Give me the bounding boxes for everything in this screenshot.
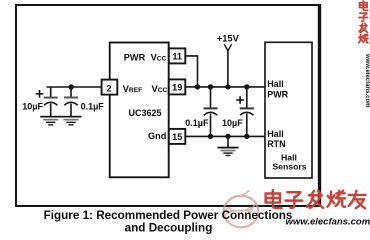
svg-text:PWR: PWR (267, 90, 288, 100)
junction C3 top to Vcc rail (208, 84, 213, 89)
svg-text:Hall: Hall (267, 79, 284, 89)
svg-text:VCC: VCC (151, 53, 167, 63)
svg-text:11: 11 (172, 51, 182, 61)
svg-text:www.elecfans.com: www.elecfans.com (364, 53, 370, 107)
svg-text:Figure 1: Recommended Power Co: Figure 1: Recommended Power Connections (44, 209, 293, 222)
wire top rail pin19 to Hall PWR (185, 86, 265, 88)
watermark text top right (vertical 电子发烧) (359, 1, 368, 43)
figure caption (44, 209, 293, 235)
svg-text:+15V: +15V (217, 34, 240, 44)
junction pin11 wire to Vcc rail (195, 84, 200, 89)
capacitor C4 10uF (center, polarized) (240, 87, 254, 136)
plus sign C1 (36, 90, 44, 98)
watermark text bottom (电子发烧友) (266, 190, 366, 208)
svg-text:0.1µF: 0.1µF (185, 118, 209, 128)
junction C4 bottom to Gnd row (244, 134, 249, 139)
svg-text:10µF: 10µF (222, 118, 243, 128)
svg-text:www.elecfans.com: www.elecfans.com (286, 217, 370, 228)
svg-text:Hall: Hall (267, 129, 284, 139)
junction ground to Gnd row (225, 134, 230, 139)
plus sign C4 (236, 96, 244, 104)
node label Hall RTN (267, 129, 286, 149)
pin label PWR Vcc (124, 53, 167, 63)
Hall Sensors block label (272, 152, 306, 171)
svg-text:Gnd: Gnd (148, 131, 166, 141)
capacitor C1 10uF (left, polarized) (44, 87, 58, 116)
junction +15V to Vcc rail (225, 84, 230, 89)
svg-text:2: 2 (106, 83, 111, 94)
svg-text:0.1µF: 0.1µF (81, 102, 105, 112)
IC U1 UC3625 body (110, 43, 169, 178)
capacitor C3 0.1uF (center) (204, 87, 218, 136)
ground (left, C1) (40, 116, 61, 126)
wire pin2 to decoupling caps (47, 86, 102, 88)
svg-text:VREF: VREF (123, 84, 143, 94)
svg-text:UC3625: UC3625 (129, 108, 162, 118)
svg-text:19: 19 (172, 82, 182, 92)
wire pin11 stub (185, 56, 197, 87)
border frame (16, 5, 320, 206)
junction C4 top to Vcc rail (244, 84, 249, 89)
Hall Sensors block (265, 42, 312, 178)
+15V supply terminal (217, 34, 240, 87)
svg-text:10µF: 10µF (22, 102, 43, 112)
junction C2 top to VREF wire (69, 84, 74, 89)
ground (center) (218, 136, 239, 156)
svg-text:PWR: PWR (124, 53, 146, 63)
capacitor C2 0.1uF (left) (64, 87, 78, 116)
pin 19 box (169, 79, 186, 94)
junction C3 bottom to Gnd row (208, 134, 213, 139)
pin 15 box (169, 129, 186, 144)
pin 2 box (102, 80, 118, 95)
svg-text:VCC: VCC (152, 84, 168, 94)
pin 11 box (169, 48, 186, 63)
ground (left, C2) (61, 116, 82, 126)
svg-text:RTN: RTN (267, 139, 286, 149)
svg-text:and Decoupling: and Decoupling (125, 221, 213, 234)
wire bottom row pin15 to Hall RTN (185, 135, 265, 137)
node label Hall PWR (267, 79, 288, 99)
svg-text:15: 15 (172, 132, 182, 142)
svg-text:Sensors: Sensors (272, 162, 306, 172)
watermark stamp circle (224, 191, 259, 228)
